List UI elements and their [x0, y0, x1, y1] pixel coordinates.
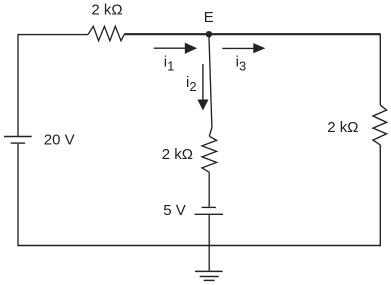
wire middle from node E down	[209, 34, 212, 136]
wire bottom rail	[17, 245, 381, 247]
wire top thick segment to right corner	[124, 33, 380, 35]
svg-text:2 kΩ: 2 kΩ	[162, 146, 193, 163]
svg-text:20 V: 20 V	[44, 132, 75, 149]
resistor R1 2 kOhm horizontal	[88, 26, 124, 40]
battery B1 20 V long plate	[4, 136, 32, 138]
current arrow i3 shaft	[222, 47, 254, 49]
svg-text:5 V: 5 V	[163, 202, 186, 219]
current arrow i1 shaft	[154, 47, 186, 49]
svg-text:2 kΩ: 2 kΩ	[327, 119, 358, 136]
battery B1 20 V short plate	[11, 142, 25, 144]
wire battery to bottom rail and ground stem	[208, 214, 210, 271]
wire right vertical upper	[379, 34, 381, 106]
resistor R2 2 kOhm middle vertical	[202, 136, 217, 172]
current arrow i1 head	[185, 43, 197, 54]
node E junction dot	[206, 31, 212, 37]
wire right vertical lower	[379, 145, 381, 246]
svg-text:i1: i1	[164, 53, 175, 73]
ground bar 2	[200, 276, 219, 278]
battery B2 5 V short plate	[202, 206, 216, 208]
wire top-left segment	[18, 34, 88, 36]
wire left vertical upper	[17, 34, 19, 136]
current arrow i3 head	[253, 43, 265, 53]
wire left vertical lower	[17, 144, 19, 246]
current arrow i2 shaft	[202, 64, 204, 100]
current arrow i2 head	[197, 100, 208, 111]
svg-text:2 kΩ: 2 kΩ	[91, 2, 122, 19]
wire middle resistor to battery	[208, 172, 210, 207]
svg-text:E: E	[204, 9, 214, 26]
battery B2 5 V long plate	[195, 213, 223, 215]
ground bar 3	[204, 279, 215, 281]
svg-text:i3: i3	[236, 53, 247, 73]
ground bar 1	[195, 270, 223, 272]
svg-text:i2: i2	[186, 74, 197, 94]
resistor R3 2 kOhm right vertical	[373, 105, 387, 145]
